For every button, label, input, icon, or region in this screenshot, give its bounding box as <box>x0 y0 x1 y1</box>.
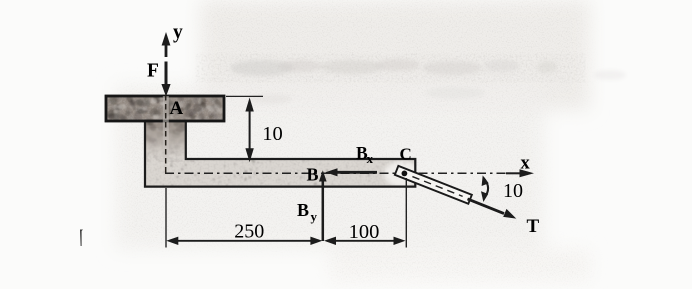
svg-text:A: A <box>170 98 184 119</box>
svg-text:10: 10 <box>503 180 523 202</box>
bracket body (machine part) fill <box>106 96 415 187</box>
angle arc with arrows <box>483 178 488 199</box>
dashed centerline of F (vertical) <box>163 96 169 159</box>
By force arrow <box>322 178 325 241</box>
svg-text:B: B <box>307 165 319 185</box>
faint bleed-through band upper right <box>228 56 553 80</box>
T force arrow <box>468 199 505 214</box>
100 dimension <box>327 240 402 242</box>
svg-text:x: x <box>367 151 374 166</box>
svg-text:y: y <box>173 22 183 43</box>
svg-text:x: x <box>521 154 531 174</box>
pin at C <box>402 171 408 177</box>
light speckle over bottom bar <box>145 155 417 188</box>
svg-text:10: 10 <box>262 123 283 145</box>
svg-text:B: B <box>297 200 309 220</box>
stem gradient fade <box>145 121 186 161</box>
darker top flange fill <box>104 94 226 122</box>
svg-text:250: 250 <box>234 221 264 243</box>
x axis dash-dot line <box>165 172 509 174</box>
svg-text:C: C <box>400 145 412 164</box>
stray scan mark at left <box>80 230 83 247</box>
svg-text:100: 100 <box>349 221 380 243</box>
svg-text:F: F <box>147 61 159 82</box>
250 dimension <box>170 240 319 242</box>
bracket outline <box>106 96 415 187</box>
y axis arrow <box>165 44 168 57</box>
link rod at C (rotated) <box>395 166 472 204</box>
bottom dimension: extension lines <box>165 188 167 248</box>
ink layer <box>106 22 534 241</box>
F force arrow <box>165 62 168 89</box>
"10" vertical dimension <box>226 95 263 97</box>
svg-text:y: y <box>311 209 318 224</box>
svg-text:T: T <box>527 216 540 237</box>
Bx force arrow <box>334 171 377 174</box>
